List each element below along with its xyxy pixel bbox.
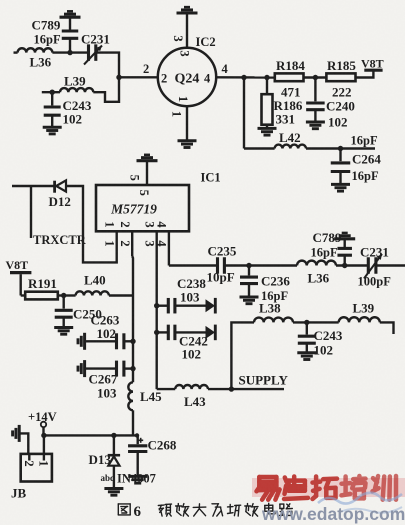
resistor R184 471 (275, 58, 306, 100)
inductor L39 (top) (60, 74, 98, 93)
power rail above C789 (left) (60, 11, 81, 30)
capacitor C243 (top) 102 (44, 92, 92, 126)
Q24 pin 4 wire (216, 62, 275, 78)
ground below C243 (right) (297, 353, 316, 360)
node at C264 (338, 146, 343, 151)
inductor L45 (vertical) (128, 382, 162, 435)
IC1 pin 3 column (155, 231, 157, 389)
diode D12 (49, 180, 71, 209)
capacitor C250 (55, 296, 102, 327)
IC1 pin 2 column (131, 231, 134, 382)
diode D13 IN4007 (89, 433, 156, 488)
connector JB (11, 454, 52, 501)
ground-return for C263 (78, 333, 85, 350)
capacitor C236 16pF (240, 266, 290, 304)
capacitor C235 10pF (207, 244, 237, 285)
inductor L38 (254, 301, 293, 323)
node at C789/L36 (67, 50, 72, 55)
ground below Q24 (178, 141, 197, 148)
ground below D13 (104, 489, 123, 496)
net stub TRXCTR (31, 186, 87, 247)
V8T power terminal (left) (6, 258, 32, 296)
capacitor C242 102 (154, 325, 208, 362)
wire L38 to L39 (293, 321, 339, 323)
capacitor C789 (right) 16pF (311, 230, 352, 266)
node B junction at pin 4 (241, 75, 246, 80)
chassis ground (bottom left) (13, 425, 20, 442)
inductor L43 (157, 385, 208, 409)
wire L42 to stub end (306, 133, 378, 148)
op-amp module IC1 M57719 (96, 170, 221, 231)
ground below R186 (258, 128, 277, 135)
trimmer capacitor C231 (right) 100pF (358, 244, 392, 288)
capacitor C263 102 (85, 313, 136, 350)
feedthrough arrow C242 (206, 325, 216, 341)
wire D12 to IC1 pin 1 (66, 186, 117, 262)
node at C243/L39 (50, 90, 55, 95)
wire C231 to right edge (376, 264, 405, 266)
ground below C268 (128, 476, 147, 483)
capacitor C268 (electrolytic) (128, 433, 177, 475)
wire input to L36 (left) (14, 51, 18, 53)
wire L36 to C231 (52, 51, 88, 53)
resistor R186 331 (262, 75, 303, 127)
feedthrough arrow C238 (206, 298, 216, 314)
wire C231 to node A (96, 53, 119, 102)
node at C243 (right) (304, 320, 309, 325)
power rail above Q24 (177, 7, 198, 13)
wire node B down to L42 (244, 78, 275, 149)
wire chassis to JB pin 2 (19, 433, 28, 454)
terminal +14V (28, 410, 57, 436)
inductor L42 (275, 130, 306, 149)
ground below C240 (306, 122, 325, 129)
RF module IC2 Q24 (158, 35, 216, 106)
ground below C264 (331, 184, 350, 191)
ground below C243 (top) (43, 127, 62, 134)
net label SUPPLY (239, 373, 289, 388)
IC1 pin number labels (102, 221, 168, 247)
capacitor C264 16pF (331, 149, 382, 184)
Q24 pin 1 wire to ground (170, 106, 188, 140)
capacitor C243 (right) 102 (298, 322, 343, 357)
wire corner to L38 (231, 322, 254, 389)
V8T power terminal (right) (361, 57, 384, 71)
ground-return for C267 (78, 360, 85, 377)
wire +14V to JB pin 1 (43, 435, 45, 454)
watermark 易迪拓培训 www.edatop.com (252, 476, 405, 524)
wire node A to Q24 pin 2 (119, 62, 158, 77)
wire C235 to L36 (right) (224, 264, 297, 266)
wire TRXCTR rail (12, 185, 54, 187)
node A junction (116, 75, 121, 80)
IC1 pin 5 wire to power (127, 161, 151, 196)
inductor L39 (right) (339, 301, 380, 323)
capacitor C267 103 (85, 361, 136, 401)
node at R191/L40/C250 (61, 293, 66, 298)
wire R184 to R185 (304, 76, 327, 78)
node between R184 and R185 (313, 75, 318, 80)
capacitor C240 102 (306, 78, 355, 130)
power rail above C789 (right) (334, 233, 355, 239)
inductor L36 (right) (297, 261, 336, 286)
Q24 pin 3 wire to power (171, 13, 187, 48)
+14V rail (41, 433, 138, 438)
ground below C250 (54, 328, 73, 335)
resistor R185 222 (326, 58, 356, 100)
wire L36 to C231 (right) (336, 264, 368, 266)
wire L43 to SUPPLY (208, 386, 284, 391)
wire stub left of L39 (42, 91, 60, 93)
node at C789 (right) (342, 263, 347, 268)
ground below C236 (240, 297, 259, 304)
power rail above IC1 (137, 155, 158, 161)
node at C236 (246, 263, 251, 268)
IC1 pin 4 wire to C235 (169, 231, 218, 265)
resistor R191 (21, 276, 64, 299)
trimmer capacitor C231 (left) (81, 32, 110, 65)
caption 图6 预放大及功放电路 (118, 503, 292, 520)
inductor L40 (64, 273, 133, 296)
inductor L36 (left) (18, 48, 53, 69)
wire L39 end stub (380, 322, 394, 334)
wire R185 to V8T (356, 72, 374, 78)
capacitor C238 103 (154, 276, 206, 313)
capacitor C789 (left) 16pF (32, 18, 79, 53)
